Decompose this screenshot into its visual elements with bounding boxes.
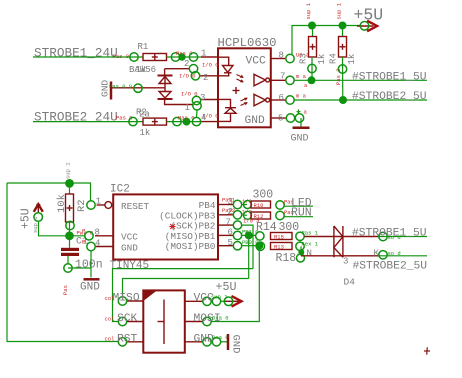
- ground GND at ISP: [228, 334, 242, 353]
- svg-text:Pas 1: Pas 1: [302, 229, 319, 236]
- D1 center link: [164, 76, 166, 92]
- HCPL pin 1: [189, 49, 218, 62]
- svg-text:5: 5: [228, 238, 233, 248]
- ISP pin MISO: [105, 293, 144, 306]
- svg-text:SCK: SCK: [117, 313, 138, 325]
- svg-text:1k: 1k: [140, 128, 151, 138]
- ground GND under HCPL pin5: [291, 110, 310, 145]
- svg-text:3: 3: [200, 93, 205, 103]
- capacitor C1: [61, 236, 103, 295]
- wire SCK horizontal H1: [113, 269, 254, 322]
- wire STROBE2_24V: [33, 121, 143, 123]
- HCPL internal LED channel 1: [218, 57, 244, 82]
- svg-text:so d: so d: [388, 250, 401, 257]
- svg-text:300: 300: [253, 189, 274, 202]
- svg-text:1: 1: [96, 196, 101, 206]
- supply +5V mid-left: [19, 204, 43, 233]
- wire +5V rail to IC2 VCC: [39, 222, 85, 236]
- svg-text:1k: 1k: [136, 65, 147, 75]
- svg-text:Pas 0 0: Pas 0 0: [109, 83, 132, 90]
- IC2 TINY45 box: [110, 183, 219, 272]
- ground GND top-left: [100, 80, 112, 100]
- wire R2a to HCPL pin4: [167, 121, 201, 123]
- resistor R1: [129, 42, 167, 75]
- wire RESET net from left rail: [7, 183, 91, 201]
- HCPL inverter output 2: [254, 94, 270, 106]
- svg-text:6: 6: [279, 93, 284, 103]
- HCPL pin 8: [271, 51, 310, 63]
- svg-text:0xa 0: 0xa 0: [212, 314, 229, 321]
- resistor R2 pullup: [56, 162, 88, 236]
- wire MISO from PB1: [242, 234, 256, 236]
- wire R4 bottom to STROBE2_5V: [342, 57, 344, 100]
- svg-text:8: 8: [279, 51, 284, 61]
- wire D4 to #STROBE2_5V label: [334, 249, 427, 273]
- wire C1 bottom to GND node: [68, 268, 91, 278]
- wire jog to D1 top: [165, 68, 190, 70]
- svg-text:7: 7: [280, 72, 285, 82]
- svg-text:#STROBE1_5U: #STROBE1_5U: [352, 228, 427, 240]
- svg-text:R10: R10: [254, 202, 264, 209]
- wire R15 to D4 upper: [304, 236, 334, 238]
- svg-text:m a: m a: [296, 73, 307, 80]
- wire R1 to HCPL pin1: [167, 56, 201, 58]
- svg-text:GND: GND: [80, 282, 100, 294]
- resistor R2a: [136, 108, 167, 139]
- svg-text:#STROBE2_5U: #STROBE2_5U: [352, 91, 427, 103]
- origin cross bottom right: [424, 347, 430, 354]
- svg-text:7: 7: [226, 217, 231, 227]
- svg-text:2a: 2a: [139, 110, 150, 120]
- ISP pin MOSI: [185, 313, 229, 326]
- wire pin8 riser to +5V rail: [292, 26, 361, 55]
- left rail wire down to RST: [7, 183, 118, 342]
- IC2 pin 2 PB3: [218, 207, 252, 219]
- net #STROBE1_5V: [294, 71, 427, 84]
- svg-text:STROBE2_24U: STROBE2_24U: [34, 110, 118, 125]
- svg-text:RUN: RUN: [291, 207, 312, 220]
- svg-text:R1: R1: [138, 42, 149, 52]
- IC2 pin 4 GND: [82, 238, 113, 250]
- HCPL internal LED channel 2: [218, 98, 248, 122]
- diode D4 dual: [334, 226, 355, 288]
- supply +5V at ISP: [216, 280, 242, 307]
- svg-text:1k: 1k: [317, 54, 327, 65]
- svg-text:P: P: [82, 228, 85, 235]
- svg-text:RST: RST: [117, 334, 138, 346]
- svg-text:R13: R13: [274, 244, 284, 251]
- svg-text:I/O 0: I/O 0: [179, 73, 196, 80]
- svg-text:1k: 1k: [347, 54, 357, 65]
- HCPL pin 6: [271, 93, 307, 105]
- svg-text:4: 4: [201, 113, 206, 123]
- svg-text:col: col: [105, 295, 115, 302]
- svg-text:P: P: [82, 239, 85, 246]
- HCPL pin 2 cluster: [179, 59, 219, 83]
- net STROBE1_24V label: [34, 45, 129, 60]
- svg-text:3: 3: [343, 257, 348, 267]
- svg-text:R4: R4: [329, 53, 339, 64]
- svg-text:R18: R18: [276, 252, 297, 265]
- svg-text:I/O 0: I/O 0: [202, 61, 219, 68]
- svg-text:GND: GND: [291, 134, 309, 145]
- svg-text:Pas1: Pas1: [222, 197, 236, 204]
- svg-text:Aex 1: Aex 1: [302, 240, 319, 247]
- wire IC2 GND pin down: [90, 251, 92, 268]
- svg-text:Pas 2: Pas 2: [335, 68, 342, 85]
- wire to LED label: [284, 205, 313, 207]
- resistor R15: [256, 221, 319, 241]
- diode D1 (BAW56 dual) upper: [158, 76, 173, 84]
- ISP pin VCC: [185, 293, 228, 306]
- ISP pin SCK: [105, 313, 144, 326]
- HCPL pin 3 cluster: [181, 90, 219, 119]
- svg-text:sup 1: sup 1: [211, 293, 228, 300]
- svg-text:1: 1: [185, 103, 190, 113]
- wire ISP GND to ground: [221, 341, 227, 343]
- IC2 pin 6 PB1: [218, 228, 259, 240]
- wire STROBE1_24V: [33, 56, 143, 58]
- wire R3 bottom to STROBE1_5V: [311, 57, 313, 80]
- svg-text:2: 2: [184, 59, 189, 69]
- svg-text:col: col: [105, 315, 115, 322]
- svg-text:GND: GND: [245, 115, 266, 127]
- svg-text:2: 2: [203, 73, 208, 83]
- IC2 pin 3 PB4: [218, 197, 252, 209]
- connector SV1 ISP box: [143, 290, 185, 352]
- resistor R3: [299, 26, 328, 65]
- IC2 pin 7 PB2: [218, 217, 260, 229]
- svg-text:VCC: VCC: [246, 56, 267, 68]
- svg-text:Pas: Pas: [62, 285, 69, 295]
- svg-text:+5U: +5U: [216, 280, 237, 294]
- svg-text:RESET: RESET: [121, 201, 150, 212]
- HCPL pin 7: [271, 72, 307, 85]
- svg-text:GND: GND: [194, 334, 215, 346]
- wire jog D1 bottom to pin3: [165, 99, 193, 105]
- svg-text:10k: 10k: [56, 194, 68, 213]
- supply +5V top-right: [354, 5, 384, 31]
- ground GND under C1: [80, 279, 100, 293]
- net #STROBE2_5V: [294, 91, 427, 104]
- net STROBE2_24V label: [34, 110, 133, 125]
- wire R13 to D4 lower: [300, 246, 302, 256]
- op-amp/optocoupler U1 HCPL0630 box: [218, 36, 277, 128]
- wire GND to D1 center: [112, 87, 165, 89]
- svg-text:5: 5: [278, 113, 283, 123]
- svg-text:D4: D4: [344, 277, 356, 288]
- junction R4 top: [339, 22, 347, 30]
- svg-text:I/O 0: I/O 0: [181, 90, 198, 97]
- svg-text:sup 1: sup 1: [65, 162, 72, 179]
- svg-text:Pas2: Pas2: [222, 207, 235, 214]
- svg-text:STROBE1_24U: STROBE1_24U: [34, 45, 118, 60]
- svg-text:0xa 0: 0xa 0: [212, 334, 229, 341]
- svg-text:sup 1: sup 1: [305, 2, 312, 19]
- wire D4 to #STROBE1_5V label: [334, 228, 427, 242]
- svg-text:col: col: [105, 336, 115, 343]
- wire MISO horizontal H2: [123, 279, 249, 297]
- ISP pin RST: [105, 334, 144, 346]
- svg-text:8: 8: [95, 227, 100, 237]
- svg-text:R12: R12: [254, 213, 264, 220]
- svg-text:100n: 100n: [75, 259, 103, 272]
- junction node R1 out: [178, 53, 185, 60]
- svg-text:#STROBE2_5U: #STROBE2_5U: [353, 261, 428, 273]
- junction pin circle left of R1: [130, 53, 138, 61]
- svg-text:R15: R15: [274, 234, 284, 241]
- svg-text:sup 1: sup 1: [336, 2, 343, 19]
- svg-text:(MOSI)PB0: (MOSI)PB0: [165, 241, 216, 252]
- HCPL pin 5: [271, 109, 308, 124]
- IC2 pin 8 VCC: [82, 227, 113, 240]
- svg-text:6: 6: [228, 228, 233, 238]
- svg-text:#STROBE1_5U: #STROBE1_5U: [352, 71, 427, 83]
- ISP pin GND: [185, 334, 229, 346]
- svg-text:GND: GND: [121, 243, 138, 254]
- resistor R13: [256, 240, 319, 265]
- svg-text:4: 4: [95, 238, 100, 248]
- svg-text:MISO: MISO: [113, 293, 140, 305]
- svg-text:TINY45: TINY45: [110, 260, 150, 272]
- IC2 pin 1 RESET: [87, 196, 112, 209]
- resistor R4: [329, 26, 358, 65]
- svg-text:K: K: [374, 249, 380, 259]
- resistor R10 (LED row): [242, 189, 294, 210]
- IC2 pin 5 PB0: [218, 238, 259, 250]
- HCPL pin 4: [192, 113, 218, 126]
- svg-text:N: N: [307, 249, 312, 259]
- svg-text:m a: m a: [296, 93, 307, 100]
- wire MOSI from PB0: [242, 245, 256, 247]
- HCPL inverter output 1: [254, 74, 270, 86]
- svg-text:GND: GND: [230, 335, 242, 354]
- wire SCK from PB2: [242, 225, 253, 269]
- svg-text:R3: R3: [299, 53, 309, 64]
- diode D1 lower: [158, 92, 173, 100]
- svg-text:VCC: VCC: [121, 231, 138, 242]
- svg-text:+5U: +5U: [19, 208, 32, 229]
- svg-text:1: 1: [201, 49, 206, 59]
- resistor R12 (RUN row): [242, 209, 294, 220]
- wire to RUN label: [284, 216, 313, 218]
- junction R3 top: [308, 22, 316, 30]
